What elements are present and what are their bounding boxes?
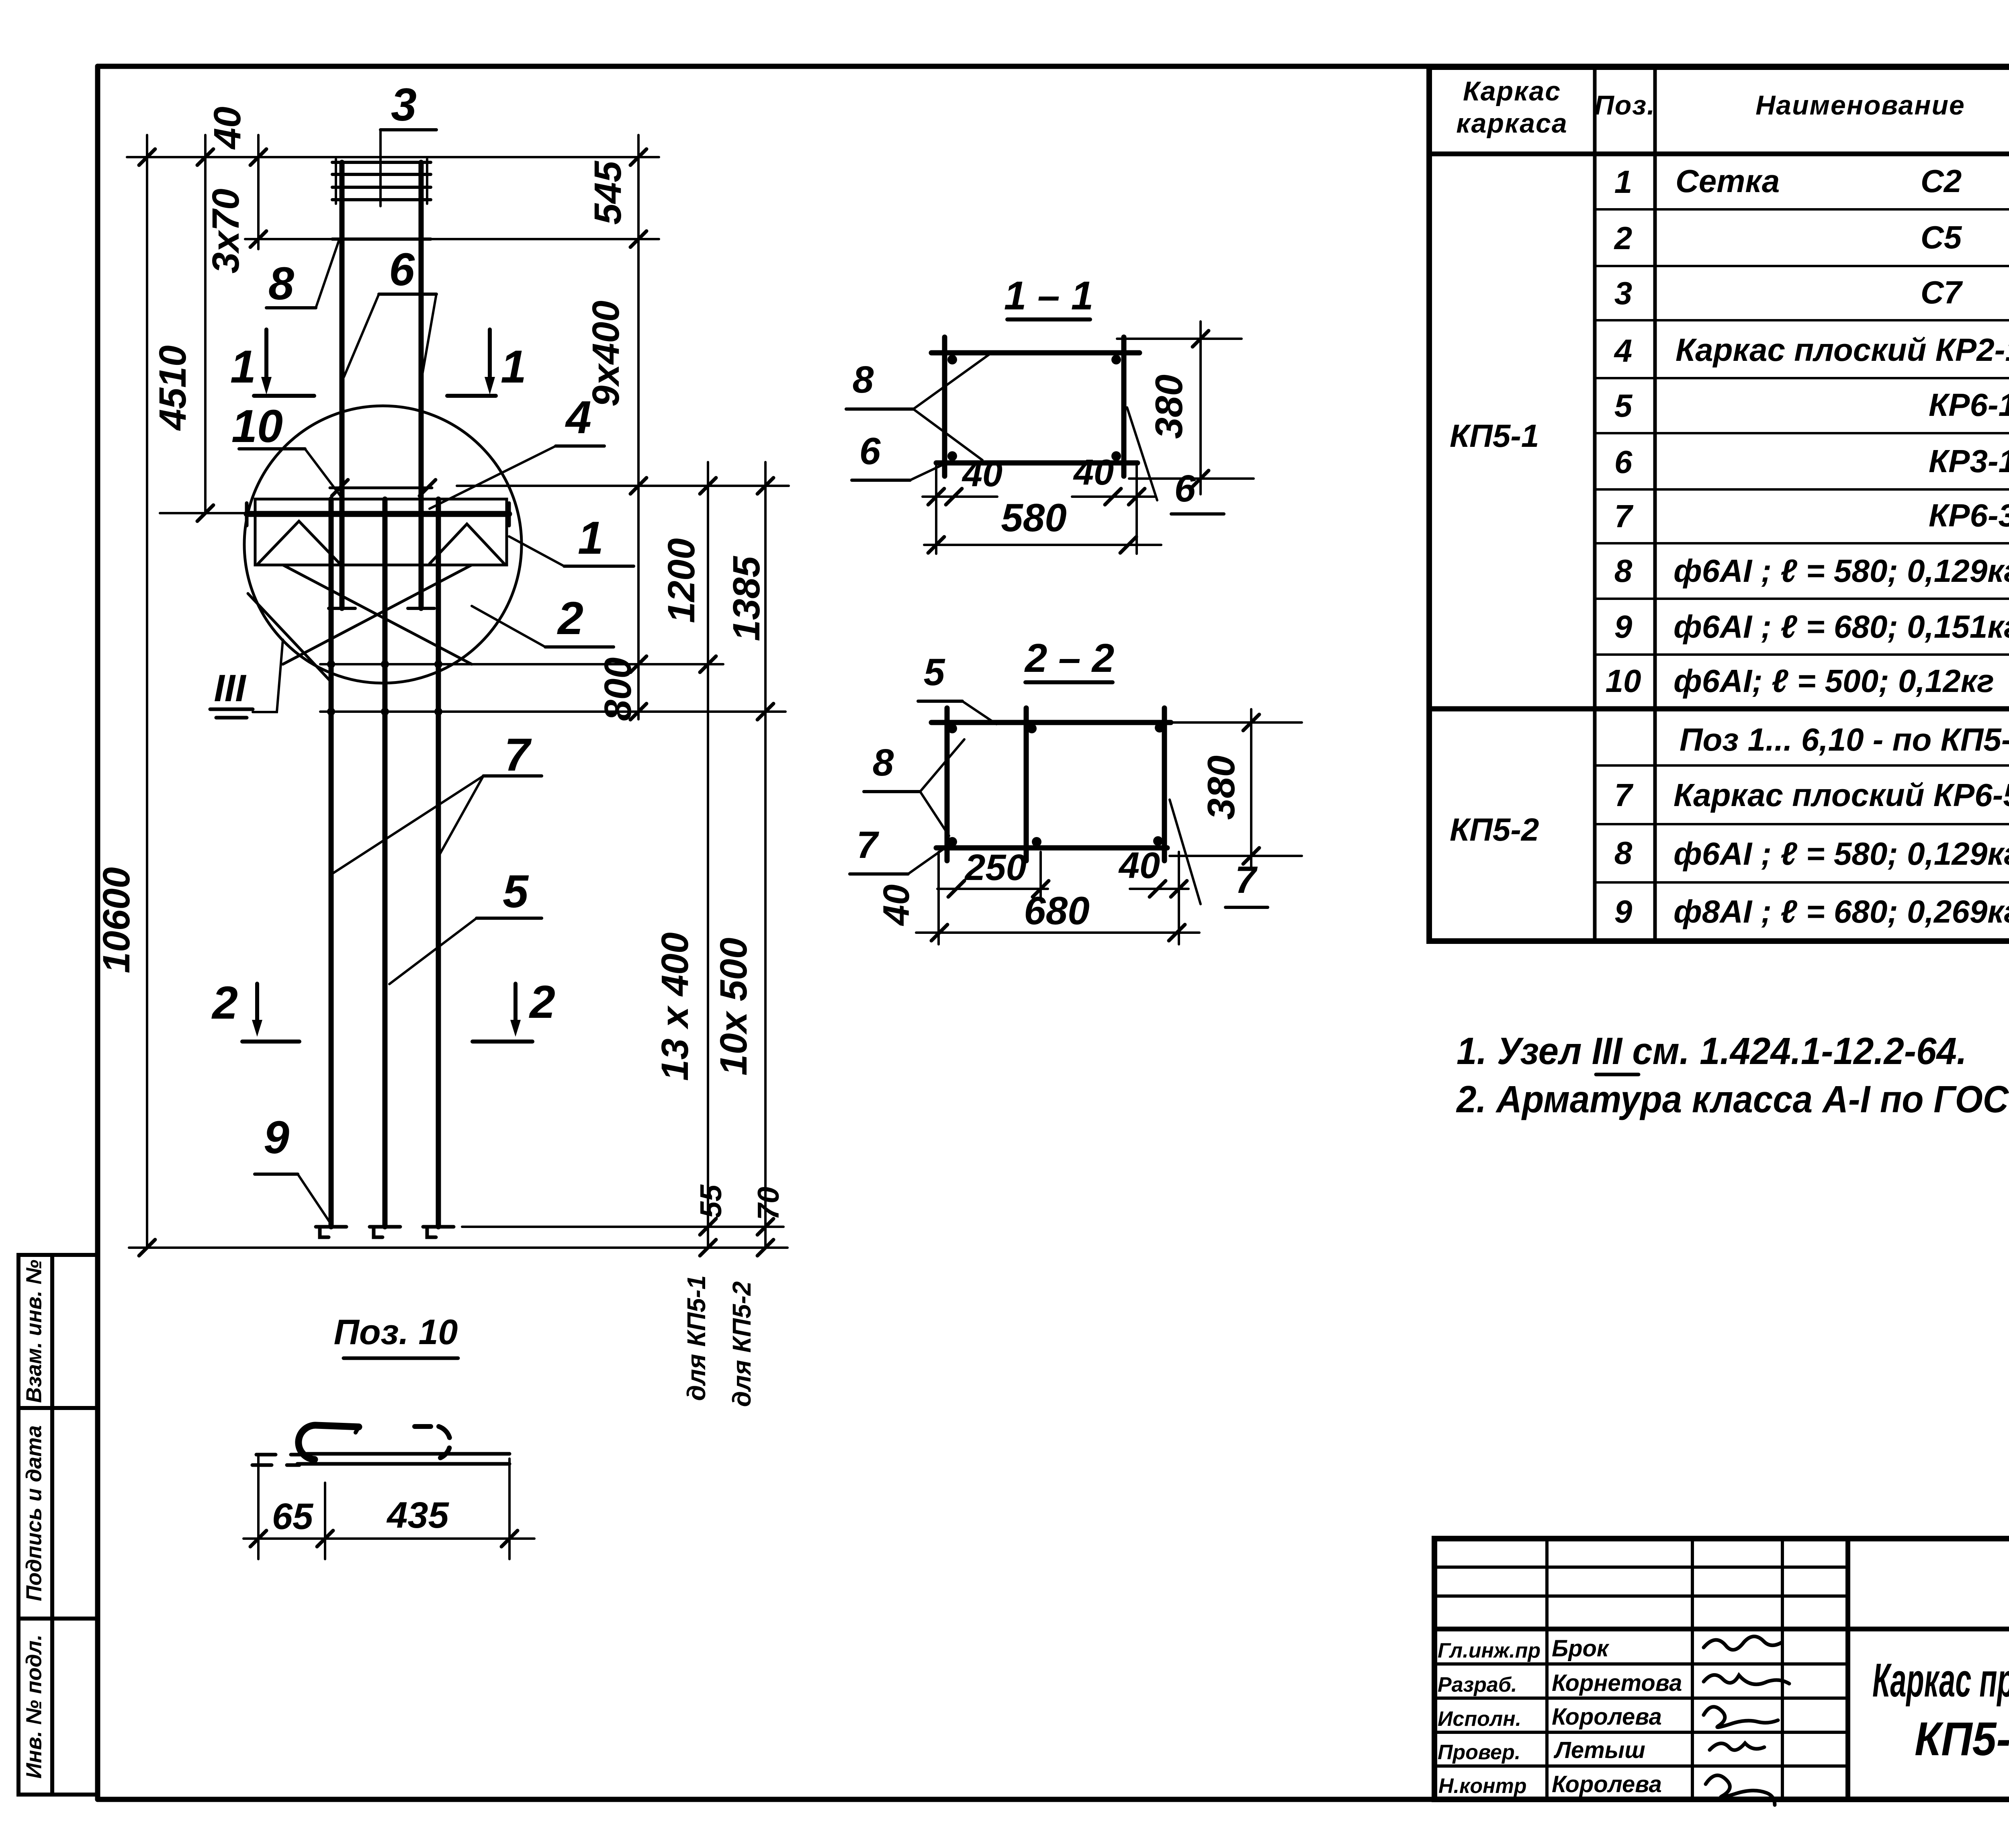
svg-text:3: 3 <box>391 79 417 131</box>
dim 380 right <box>1117 321 1254 494</box>
bottom line KP5-1 <box>462 1226 784 1228</box>
label 3 <box>381 79 436 206</box>
svg-text:2: 2 <box>557 593 583 644</box>
svg-text:КП5-1; КП5-2: КП5-1; КП5-2 <box>1915 1713 2009 1766</box>
svg-text:250: 250 <box>964 847 1027 888</box>
dim 380 right section2 <box>1170 709 1302 868</box>
svg-text:1: 1 <box>501 341 526 393</box>
svg-text:КП5-1: КП5-1 <box>1450 418 1539 454</box>
svg-text:9: 9 <box>264 1112 289 1163</box>
svg-text:380: 380 <box>1148 375 1191 439</box>
svg-text:КР6-1: КР6-1 <box>1929 387 2009 423</box>
svg-text:9: 9 <box>1614 609 1633 645</box>
stirrup bars <box>931 337 1140 476</box>
svg-text:4510: 4510 <box>151 345 194 431</box>
svg-text:6: 6 <box>1614 444 1633 480</box>
svg-text:800: 800 <box>597 657 639 721</box>
svg-text:каркаса: каркаса <box>1456 108 1567 139</box>
svg-text:2: 2 <box>1614 220 1633 256</box>
svg-text:2 – 2: 2 – 2 <box>1024 636 1114 681</box>
svg-text:КР3-1: КР3-1 <box>1929 443 2009 479</box>
svg-text:3х70: 3х70 <box>205 188 247 273</box>
svg-text:Подпись и дата: Подпись и дата <box>22 1425 46 1601</box>
section mark 2-2 left <box>211 977 299 1042</box>
dashed bar extension <box>252 1455 305 1465</box>
section mark 1-1 left <box>230 329 314 396</box>
left stamp column boxes <box>18 1255 98 1795</box>
node circle <box>244 406 522 683</box>
svg-text:С7: С7 <box>1921 274 1963 310</box>
svg-text:10х 500: 10х 500 <box>712 937 755 1075</box>
dim vertical 40 3x70 <box>257 135 260 249</box>
title block texts <box>1438 1569 2009 1798</box>
svg-text:для КП5-2: для КП5-2 <box>727 1281 756 1407</box>
svg-text:8: 8 <box>268 258 294 309</box>
dimension labels left <box>95 106 785 1407</box>
svg-text:Наименование: Наименование <box>1755 90 1965 121</box>
node line upper <box>320 663 723 665</box>
svg-text:КП5-2: КП5-2 <box>1450 812 1539 847</box>
label 1 <box>509 512 634 566</box>
svg-text:7: 7 <box>1614 777 1634 813</box>
svg-text:Королева: Королева <box>1552 1771 1662 1797</box>
extension line mesh bottom <box>245 238 659 240</box>
svg-text:9х400: 9х400 <box>585 301 627 407</box>
table header texts <box>1456 72 2009 156</box>
svg-text:КР6-3: КР6-3 <box>1929 497 2009 533</box>
svg-text:1: 1 <box>230 341 256 393</box>
table body texts <box>1450 163 2009 929</box>
svg-text:Каркас: Каркас <box>1463 76 1561 106</box>
bar line above cap <box>330 487 432 489</box>
svg-text:40: 40 <box>1118 845 1160 886</box>
svg-text:7: 7 <box>1235 859 1258 901</box>
svg-text:Летыш: Летыш <box>1553 1737 1645 1763</box>
svg-text:С5: С5 <box>1921 219 1962 255</box>
label 5 <box>389 866 542 984</box>
svg-text:III: III <box>214 667 247 710</box>
label 10 <box>231 401 343 499</box>
svg-text:70: 70 <box>751 1187 785 1220</box>
svg-text:2: 2 <box>211 977 238 1029</box>
svg-text:1: 1 <box>1614 164 1633 200</box>
svg-text:Сетка: Сетка <box>1676 163 1780 199</box>
svg-text:Поз 1... 6,10 - по КП5-1: Поз 1... 6,10 - по КП5-1 <box>1680 722 2009 757</box>
extension line top <box>127 156 659 158</box>
extension line cap top right <box>457 485 789 487</box>
svg-text:Корнетова: Корнетова <box>1552 1670 1682 1696</box>
dim vertical 545 9x400 800 <box>637 135 640 719</box>
node line lower <box>320 710 786 713</box>
svg-text:380: 380 <box>1200 755 1243 820</box>
svg-text:ф6АI ; ℓ = 580; 0,129кг: ф6АI ; ℓ = 580; 0,129кг <box>1673 553 2009 589</box>
dimension ticks <box>139 149 773 1256</box>
stirrup bars <box>931 708 1171 861</box>
bar feet at bottom <box>316 1227 454 1237</box>
svg-text:10600: 10600 <box>95 867 138 973</box>
svg-text:6: 6 <box>1174 467 1196 510</box>
svg-text:для КП5-1: для КП5-1 <box>682 1275 711 1401</box>
node diagonals <box>248 521 504 683</box>
svg-text:5: 5 <box>503 866 529 917</box>
svg-text:Брок: Брок <box>1552 1635 1610 1662</box>
label 7 <box>333 729 542 873</box>
svg-text:10: 10 <box>1606 663 1641 699</box>
svg-text:Н.контр: Н.контр <box>1438 1774 1527 1798</box>
svg-text:8: 8 <box>1614 835 1633 871</box>
label 4 <box>430 392 604 509</box>
title block <box>1434 1539 2009 1799</box>
svg-text:1: 1 <box>578 512 604 564</box>
svg-text:Взам. инв. №: Взам. инв. № <box>22 1260 46 1403</box>
svg-text:7: 7 <box>1614 498 1634 534</box>
svg-text:7: 7 <box>857 824 880 866</box>
left hook <box>299 1425 359 1459</box>
lower column bars <box>331 499 438 1227</box>
section mark 1-1 right <box>447 329 526 396</box>
svg-text:545: 545 <box>587 161 629 225</box>
svg-text:Гл.инж.пр: Гл.инж.пр <box>1438 1639 1541 1662</box>
svg-text:40: 40 <box>962 454 1002 494</box>
svg-text:Каркас плоский КР2-1: Каркас плоский КР2-1 <box>1676 332 2009 368</box>
cap main bar <box>247 511 509 517</box>
svg-text:10: 10 <box>231 401 283 452</box>
svg-text:4: 4 <box>1614 333 1633 368</box>
svg-text:Разраб.: Разраб. <box>1438 1673 1517 1697</box>
svg-text:6: 6 <box>389 244 415 295</box>
svg-text:3: 3 <box>1614 275 1633 311</box>
svg-text:Провер.: Провер. <box>1438 1741 1520 1764</box>
section mark 2-2 right <box>473 976 555 1042</box>
dim vertical 1200 13x400 <box>707 462 709 1248</box>
right hook dashed <box>415 1426 450 1458</box>
dim vertical 4510 <box>204 135 207 513</box>
dim vertical 10600 <box>146 135 148 1248</box>
notes <box>1456 1030 2009 1121</box>
svg-text:40: 40 <box>206 106 249 150</box>
svg-text:2: 2 <box>529 976 555 1028</box>
label 9 <box>255 1112 331 1225</box>
svg-text:Инв. № подл.: Инв. № подл. <box>22 1635 46 1779</box>
label 2 <box>472 593 614 647</box>
extension line 4510 bottom <box>160 512 257 514</box>
svg-text:55: 55 <box>694 1184 728 1218</box>
svg-text:435: 435 <box>386 1495 449 1536</box>
svg-text:С2: С2 <box>1921 163 1962 199</box>
node III marker <box>210 640 283 718</box>
svg-text:4: 4 <box>565 392 591 443</box>
svg-text:2. Арматура класса А-I по ГО: 2. Арматура класса А-I по ГОСТ 5781-82*. <box>1456 1078 2009 1121</box>
svg-text:7: 7 <box>504 729 532 781</box>
svg-text:ф8АI ; ℓ = 680; 0,269кг: ф8АI ; ℓ = 680; 0,269кг <box>1673 894 2009 929</box>
node dots <box>327 660 442 716</box>
dims 65 435 <box>243 1455 534 1559</box>
svg-text:Поз.: Поз. <box>1594 90 1655 121</box>
svg-text:8: 8 <box>873 741 894 784</box>
svg-text:6: 6 <box>859 430 881 473</box>
main column bars upper <box>329 162 434 608</box>
svg-text:ф6АI ; ℓ = 680; 0,151кг: ф6АI ; ℓ = 680; 0,151кг <box>1673 609 2009 645</box>
svg-text:Поз. 10: Поз. 10 <box>334 1312 458 1352</box>
svg-text:ф6АI; ℓ = 500; 0,12кг: ф6АI; ℓ = 500; 0,12кг <box>1673 663 1994 699</box>
svg-text:5: 5 <box>924 651 945 694</box>
bar body <box>305 1452 509 1456</box>
bar dots <box>947 723 1164 847</box>
svg-text:1 – 1: 1 – 1 <box>1004 273 1093 318</box>
corner bar dots <box>947 355 1121 461</box>
svg-text:13 х 400: 13 х 400 <box>654 932 696 1081</box>
label 6 <box>344 244 436 377</box>
label 8 <box>266 241 339 309</box>
svg-text:8: 8 <box>853 358 874 401</box>
mesh C7 bars at column top <box>332 159 431 239</box>
svg-text:Королева: Королева <box>1552 1704 1662 1730</box>
dims 250 40 <box>916 852 1199 944</box>
svg-text:8: 8 <box>1614 553 1633 589</box>
svg-text:580: 580 <box>1001 495 1067 540</box>
svg-text:680: 680 <box>1024 888 1090 933</box>
bottom line KP5-2 <box>129 1246 788 1249</box>
svg-text:1200: 1200 <box>660 538 703 623</box>
svg-text:40: 40 <box>1073 452 1114 493</box>
svg-text:65: 65 <box>272 1496 314 1537</box>
specification table grid <box>1429 67 2009 941</box>
svg-text:Каркас пространственный: Каркас пространственный <box>1872 1654 2009 1707</box>
dim vertical 1385 10x500 <box>764 462 767 1248</box>
dims 40 40 <box>923 466 1161 554</box>
svg-text:9: 9 <box>1614 894 1633 929</box>
svg-text:Каркас плоский КР6-5: Каркас плоский КР6-5 <box>1673 777 2009 813</box>
svg-text:40: 40 <box>876 884 917 926</box>
pile cap rectangle <box>255 499 507 565</box>
svg-text:Исполн.: Исполн. <box>1438 1707 1521 1731</box>
svg-text:1385: 1385 <box>725 556 768 641</box>
svg-text:1. Узел III см. 1.424.1-12.2-6: 1. Узел III см. 1.424.1-12.2-64. <box>1457 1030 1967 1072</box>
svg-text:ф6АI ; ℓ = 580; 0,129кг: ф6АI ; ℓ = 580; 0,129кг <box>1673 836 2009 872</box>
svg-text:5: 5 <box>1614 388 1633 424</box>
signatures squiggles <box>1704 1636 1789 1805</box>
